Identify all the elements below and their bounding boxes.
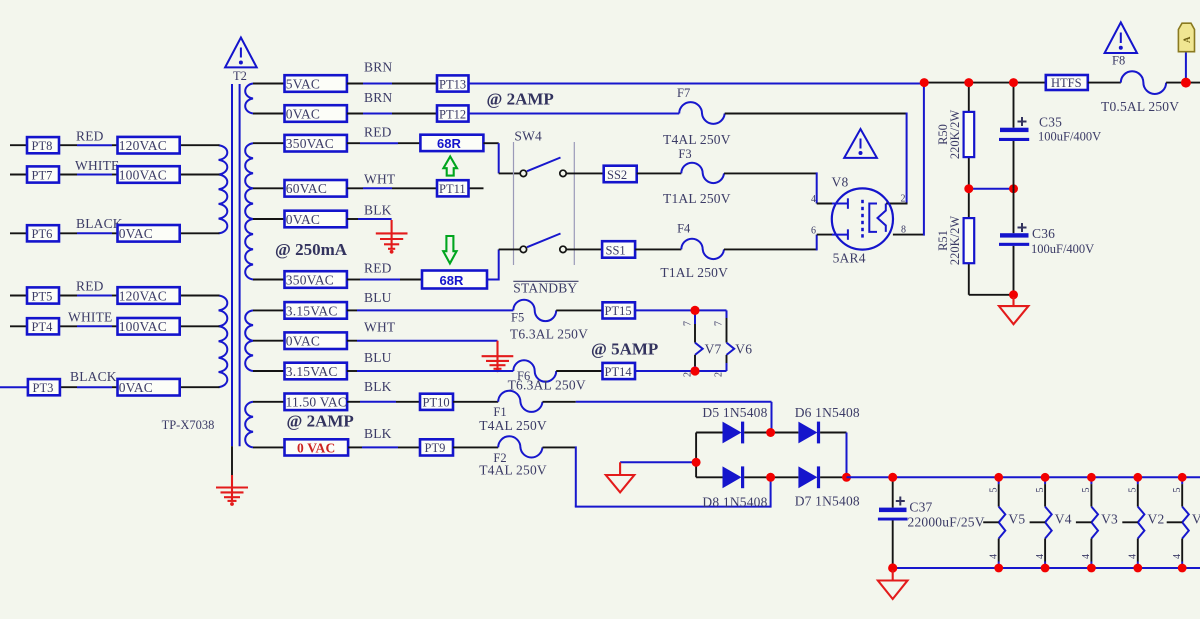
- svg-text:T1AL 250V: T1AL 250V: [660, 265, 728, 280]
- switch SW4 pole 1: [520, 158, 566, 177]
- label @ 250mA: [275, 240, 348, 259]
- wire 11.50VAC to PT10: [347, 401, 420, 403]
- label BRN: [364, 60, 392, 75]
- svg-text:5: 5: [1128, 488, 1139, 493]
- wire heater top rail: [847, 476, 1200, 478]
- resistor 68R top: [420, 135, 483, 151]
- resistor R50: [964, 112, 975, 157]
- junction V5 bottom: [994, 564, 1003, 573]
- junction V7 top: [690, 306, 699, 315]
- wire F8 to edge: [1166, 82, 1200, 84]
- svg-text:V6: V6: [735, 342, 752, 357]
- label BLK: [364, 203, 392, 218]
- svg-text:@ 5AMP: @ 5AMP: [591, 340, 658, 359]
- svg-text:11.50 VAC: 11.50 VAC: [286, 395, 348, 410]
- svg-text:T4AL 250V: T4AL 250V: [479, 418, 547, 433]
- label BRN 2: [364, 90, 392, 105]
- label WHITE: [75, 158, 119, 173]
- svg-text:100VAC: 100VAC: [119, 319, 167, 334]
- ground at transformer: [216, 475, 248, 506]
- svg-text:220K/2W: 220K/2W: [948, 216, 962, 266]
- wire HTFS to F8: [1088, 82, 1121, 84]
- svg-text:4: 4: [1081, 554, 1092, 559]
- svg-text:PT9: PT9: [425, 441, 446, 455]
- svg-text:F1: F1: [493, 405, 506, 419]
- svg-text:68R: 68R: [437, 136, 461, 151]
- junction V3 top: [1087, 473, 1096, 482]
- pin 4 of V8: [811, 194, 816, 205]
- svg-text:2: 2: [901, 194, 906, 205]
- svg-text:WHT: WHT: [364, 172, 396, 187]
- wire PT9 to F2: [453, 446, 498, 448]
- fuse F8: [1101, 54, 1179, 115]
- label BLACK 2: [70, 369, 117, 384]
- svg-text:T0.5AL 250V: T0.5AL 250V: [1101, 99, 1179, 114]
- transformer T2 core: [232, 84, 240, 446]
- wire 0VAC to PT12: [347, 113, 437, 115]
- wire bridge ground tap: [620, 461, 696, 463]
- wire 5VAC to PT13: [347, 83, 437, 85]
- transformer T2 primary winding P2: [219, 296, 228, 388]
- wire PT5 row: [10, 295, 220, 297]
- pin 5 of V1: [1172, 488, 1183, 493]
- wire F2 to bridge: [543, 446, 771, 507]
- terminal PT9: [420, 439, 453, 455]
- node 0VAC primary2: [118, 379, 180, 396]
- svg-text:TP-X7038: TP-X7038: [162, 418, 215, 432]
- label RED 2: [76, 279, 104, 294]
- resistor R51: [964, 218, 975, 263]
- wire PT3 row: [0, 386, 220, 388]
- svg-text:BLU: BLU: [364, 350, 392, 365]
- pin 6 of V8: [811, 226, 816, 237]
- svg-text:C37: C37: [909, 500, 932, 515]
- terminal PT5: [27, 287, 59, 303]
- pin 8 of V8: [901, 225, 906, 236]
- junction mid at 1013: [1009, 184, 1018, 193]
- junction V2 bottom: [1133, 564, 1142, 573]
- svg-text:SS2: SS2: [607, 168, 627, 182]
- node SS1: [602, 241, 635, 258]
- svg-text:V1: V1: [1192, 512, 1200, 527]
- svg-text:0VAC: 0VAC: [119, 380, 153, 395]
- label D6 1N5408: [795, 405, 860, 420]
- transformer T2 secondary winding S1: [245, 84, 253, 114]
- pin 4 of V3: [1081, 554, 1092, 559]
- label D5 1N5408: [702, 405, 767, 420]
- wire 68R to SW4 top: [483, 143, 520, 173]
- junction V7 bottom: [690, 366, 699, 375]
- svg-text:120VAC: 120VAC: [119, 138, 167, 153]
- wire 60VAC to PT11: [347, 187, 484, 189]
- svg-text:PT8: PT8: [32, 139, 53, 153]
- wire PT7 row: [10, 174, 220, 176]
- heater V4: [1030, 477, 1072, 568]
- junction V4 top: [1041, 473, 1050, 482]
- svg-text:T1AL 250V: T1AL 250V: [663, 191, 731, 206]
- junction bridge left: [692, 458, 701, 467]
- junction V1 bottom: [1178, 564, 1187, 573]
- terminal PT13: [437, 75, 469, 91]
- svg-text:T4AL 250V: T4AL 250V: [663, 132, 731, 147]
- junction mid at 968: [964, 184, 973, 193]
- svg-text:@ 2AMP: @ 2AMP: [287, 412, 354, 431]
- wire transformer core to ground: [231, 446, 233, 477]
- svg-text:F3: F3: [678, 147, 691, 161]
- wire 3.15VAC to F6: [347, 370, 513, 372]
- resistor 68R bottom: [422, 271, 487, 289]
- wire top rail PT13 to HTFS: [469, 82, 1046, 85]
- svg-text:100VAC: 100VAC: [119, 167, 167, 182]
- wire 0VAC WHT to ground: [347, 340, 498, 342]
- svg-text:V3: V3: [1101, 512, 1118, 527]
- warning triangle above T2: [225, 38, 257, 68]
- capacitor C37: [878, 477, 908, 568]
- svg-text:@ 250mA: @ 250mA: [275, 240, 348, 259]
- junction rail at 968: [964, 78, 973, 87]
- green arrow down: [443, 236, 456, 263]
- junction V3 bottom: [1087, 564, 1096, 573]
- svg-text:220K/2W: 220K/2W: [948, 110, 962, 160]
- svg-text:D8 1N5408: D8 1N5408: [702, 495, 767, 510]
- tube V8 5AR4: [832, 188, 924, 249]
- svg-text:0VAC: 0VAC: [119, 226, 153, 241]
- wire SS1 to F4: [635, 248, 681, 250]
- label SW4: [514, 129, 542, 144]
- capacitor C35: [999, 117, 1029, 141]
- pin 5 of V3: [1081, 488, 1092, 493]
- svg-text:0VAC: 0VAC: [286, 106, 320, 121]
- node 3.15VAC bottom: [285, 363, 347, 380]
- wire PT15 to heaters V7 V6 top: [635, 310, 727, 318]
- svg-text:PT13: PT13: [439, 77, 466, 91]
- svg-text:120VAC: 120VAC: [119, 288, 167, 303]
- wire D6 output down: [846, 433, 848, 478]
- wire heater bottom rail: [893, 567, 1200, 569]
- transformer T2 secondary winding S4: [245, 402, 253, 448]
- diode D8: [696, 466, 771, 488]
- svg-text:0VAC: 0VAC: [286, 334, 320, 349]
- svg-text:3.15VAC: 3.15VAC: [286, 364, 338, 379]
- svg-text:BRN: BRN: [364, 60, 392, 75]
- ground near bridge: [606, 462, 635, 492]
- wire mid junction R50 C35: [969, 188, 1014, 190]
- svg-text:7: 7: [683, 321, 694, 326]
- label V8: [832, 175, 849, 190]
- connector A: [1178, 23, 1194, 52]
- transformer T2 primary winding P1: [219, 145, 228, 233]
- svg-text:D6 1N5408: D6 1N5408: [795, 405, 860, 420]
- pin 4 of V1: [1172, 554, 1183, 559]
- label RED wire: [364, 125, 392, 140]
- wire 3.15VAC to F5: [347, 309, 513, 311]
- pin 2 of V8: [901, 194, 906, 205]
- node 5VAC: [285, 75, 347, 92]
- breaker HTFS: [1046, 75, 1088, 90]
- svg-text:60VAC: 60VAC: [286, 181, 327, 196]
- svg-text:8: 8: [901, 225, 906, 236]
- svg-text:C35: C35: [1039, 115, 1062, 130]
- pin 4 of V2: [1128, 554, 1139, 559]
- svg-text:V4: V4: [1055, 512, 1072, 527]
- label BLACK: [76, 216, 123, 231]
- wire 0VAC BLK to ground: [347, 218, 392, 220]
- svg-text:100uF/400V: 100uF/400V: [1038, 130, 1101, 144]
- junction top rail at 924: [920, 78, 929, 87]
- heater V2: [1122, 477, 1164, 568]
- svg-text:PT11: PT11: [439, 182, 466, 196]
- wire F4 to V8 pin6: [724, 235, 833, 251]
- label 5AR4: [833, 251, 866, 266]
- svg-text:V8: V8: [832, 175, 849, 190]
- svg-text:PT7: PT7: [32, 168, 53, 182]
- svg-text:STANDBY: STANDBY: [513, 281, 577, 296]
- node 350VAC bottom: [285, 271, 347, 288]
- svg-text:BRN: BRN: [364, 90, 392, 105]
- label STANDBY: [513, 281, 578, 296]
- svg-text:BLU: BLU: [364, 290, 392, 305]
- svg-text:BLK: BLK: [364, 203, 392, 218]
- node 120VAC 2: [118, 287, 180, 304]
- wire SS2 to F3: [637, 172, 682, 174]
- pin 5 of V2: [1128, 488, 1139, 493]
- switch SW4 pole 2: [520, 234, 566, 253]
- junction V4 bottom: [1041, 564, 1050, 573]
- pin 7 of V6: [714, 321, 725, 326]
- svg-text:@ 2AMP: @ 2AMP: [487, 90, 554, 109]
- junction bridge bottom: [766, 473, 775, 482]
- svg-text:4: 4: [1035, 554, 1046, 559]
- junction V2 top: [1133, 473, 1142, 482]
- junction V1 top: [1178, 473, 1187, 482]
- junction C37 bottom: [888, 563, 897, 572]
- label BLK 2: [364, 379, 392, 394]
- pin 2 of V6: [714, 372, 725, 377]
- fuse F7: [663, 86, 731, 147]
- svg-text:350VAC: 350VAC: [286, 272, 334, 287]
- svg-text:0VAC: 0VAC: [286, 212, 320, 227]
- heater V3: [1076, 477, 1118, 568]
- node 0VAC BLK: [285, 211, 347, 228]
- label @ 5AMP: [591, 340, 658, 359]
- node 100VAC: [118, 166, 180, 183]
- transformer T2 secondary winding S3: [245, 310, 253, 371]
- fuse F4: [660, 222, 728, 281]
- svg-text:5: 5: [1172, 488, 1183, 493]
- wire 350VAC to 68R 2: [347, 279, 422, 281]
- svg-text:F4: F4: [677, 222, 691, 236]
- node 11.50 VAC: [285, 394, 348, 411]
- terminal PT15: [603, 302, 636, 318]
- svg-text:BLACK: BLACK: [76, 216, 123, 231]
- wire PT10 to F1: [453, 401, 498, 403]
- terminal PT12: [437, 105, 469, 121]
- terminal PT6: [27, 225, 59, 241]
- pin 4 of V5: [989, 554, 1000, 559]
- junction bottom at 1013: [1009, 290, 1018, 299]
- label RED: [76, 129, 104, 144]
- label R50 220K/2W: [936, 110, 962, 160]
- heater V1: [1167, 477, 1200, 568]
- svg-text:4: 4: [1128, 554, 1139, 559]
- label TP-X7038: [162, 418, 215, 432]
- svg-text:0 VAC: 0 VAC: [297, 440, 335, 455]
- svg-text:PT15: PT15: [605, 304, 632, 318]
- svg-text:SS1: SS1: [606, 243, 626, 257]
- diode D6: [771, 422, 847, 444]
- wire PT12 to F7: [469, 113, 680, 115]
- heater V7: [695, 310, 722, 371]
- svg-text:D5 1N5408: D5 1N5408: [702, 405, 767, 420]
- switch SW4 guide lines: [514, 142, 575, 265]
- svg-text:A: A: [1182, 36, 1192, 43]
- label C36: [1031, 226, 1094, 256]
- label WHITE 2: [68, 310, 112, 325]
- junction bridge top: [766, 428, 775, 437]
- svg-text:4: 4: [989, 554, 1000, 559]
- terminal PT14: [603, 363, 636, 379]
- svg-text:PT6: PT6: [32, 227, 53, 241]
- svg-text:PT12: PT12: [439, 107, 466, 121]
- wire 0VAC to PT9: [348, 446, 420, 448]
- svg-text:100uF/400V: 100uF/400V: [1031, 242, 1094, 256]
- wire R50 column: [969, 83, 1014, 295]
- transformer T2 secondary winding S2: [245, 143, 253, 279]
- fuse F5: [510, 300, 588, 342]
- svg-text:5: 5: [1035, 488, 1046, 493]
- svg-text:5VAC: 5VAC: [286, 76, 320, 91]
- node 0VAC primary1: [118, 225, 180, 242]
- svg-text:WHT: WHT: [364, 320, 396, 335]
- wire PT8 row: [10, 144, 220, 146]
- label WHT: [364, 172, 396, 187]
- ground WHT row: [482, 341, 514, 372]
- svg-text:4: 4: [1172, 554, 1183, 559]
- svg-text:C36: C36: [1032, 226, 1055, 241]
- wire V8 pin8 to top rail: [923, 83, 925, 236]
- diode D7: [771, 466, 847, 488]
- warning triangle near V8: [844, 129, 877, 158]
- svg-text:68R: 68R: [440, 273, 464, 288]
- node 0 VAC red: [285, 439, 349, 455]
- svg-text:T4AL 250V: T4AL 250V: [479, 463, 547, 478]
- svg-text:22000uF/25V: 22000uF/25V: [908, 515, 985, 530]
- svg-text:D7 1N5408: D7 1N5408: [795, 494, 860, 509]
- wire PT6 row: [10, 232, 220, 234]
- svg-text:PT3: PT3: [33, 381, 54, 395]
- svg-text:PT14: PT14: [605, 365, 633, 379]
- label @ 2AMP bottom: [287, 412, 354, 431]
- terminal PT11: [437, 180, 469, 196]
- pin 4 of V4: [1035, 554, 1046, 559]
- svg-text:5: 5: [1081, 488, 1092, 493]
- label BLU 2: [364, 350, 392, 365]
- wire SW4 to SS2: [566, 172, 604, 174]
- svg-text:7: 7: [714, 321, 725, 326]
- terminal PT3: [28, 379, 60, 395]
- svg-text:T6.3AL 250V: T6.3AL 250V: [510, 327, 588, 342]
- ground below C36: [999, 297, 1028, 324]
- svg-text:PT5: PT5: [32, 289, 53, 303]
- wire F3 to V8 pin4: [724, 172, 833, 203]
- ground BLK row: [376, 220, 408, 254]
- junction C37 top: [888, 473, 897, 482]
- terminal PT7: [27, 166, 59, 182]
- label @ 2AMP top: [487, 90, 554, 109]
- svg-text:PT4: PT4: [32, 320, 54, 334]
- svg-text:4: 4: [811, 194, 816, 205]
- node 350VAC top: [285, 135, 347, 152]
- pin 7 of V7: [683, 321, 694, 326]
- svg-text:BLACK: BLACK: [70, 369, 117, 384]
- svg-text:F8: F8: [1112, 54, 1125, 68]
- green arrow up: [443, 157, 457, 176]
- wire 350VAC to 68R: [347, 142, 421, 144]
- wire 68R bottom to SW4 pole2: [487, 249, 520, 280]
- svg-text:WHITE: WHITE: [68, 310, 112, 325]
- svg-text:BLK: BLK: [364, 379, 392, 394]
- wire taps secondary: [253, 84, 285, 448]
- wire PT14 to heaters V7 V6 bottom: [635, 363, 727, 371]
- diode D5: [696, 422, 771, 444]
- heater V6: [727, 318, 753, 363]
- node 60VAC: [285, 180, 347, 197]
- wire bridge left leg: [695, 433, 697, 478]
- fuse F6: [508, 360, 586, 392]
- svg-text:5AR4: 5AR4: [833, 251, 866, 266]
- svg-text:F7: F7: [677, 86, 690, 100]
- svg-text:RED: RED: [76, 129, 104, 144]
- svg-text:350VAC: 350VAC: [286, 136, 334, 151]
- svg-text:RED: RED: [76, 279, 104, 294]
- wire F1 to bridge: [543, 402, 772, 433]
- wire connector A: [1185, 52, 1187, 83]
- heater V5: [983, 477, 1025, 568]
- junction rail at 1013: [1009, 78, 1018, 87]
- wire F5 to PT15: [556, 309, 602, 311]
- svg-text:3.15VAC: 3.15VAC: [286, 303, 338, 318]
- label WHT 2: [364, 320, 396, 335]
- svg-text:2: 2: [714, 372, 725, 377]
- label BLU: [364, 290, 392, 305]
- label RED wire 2: [364, 261, 392, 276]
- warning triangle above F8: [1105, 22, 1137, 53]
- pin 5 of V5: [989, 488, 1000, 493]
- label D7 1N5408: [795, 494, 860, 509]
- svg-text:WHITE: WHITE: [75, 158, 119, 173]
- terminal PT10: [420, 394, 453, 410]
- label D8 1N5408: [702, 495, 767, 510]
- svg-text:5: 5: [989, 488, 1000, 493]
- wire SW4 to SS1: [566, 248, 602, 250]
- ground below C37: [878, 570, 908, 599]
- wire C35 column: [1013, 83, 1015, 295]
- fuse F3: [663, 147, 731, 206]
- svg-text:V5: V5: [1008, 512, 1025, 527]
- junction bridge output: [842, 473, 851, 482]
- svg-text:PT10: PT10: [423, 396, 450, 410]
- svg-text:BLK: BLK: [364, 426, 392, 441]
- label BLK 3: [364, 426, 392, 441]
- junction at connector A: [1181, 78, 1191, 88]
- wire PT4 row: [10, 325, 220, 327]
- node 120VAC: [118, 137, 180, 154]
- wire F7 to V8 pin2: [725, 113, 908, 204]
- label R51 220K/2W: [936, 216, 962, 266]
- svg-text:F5: F5: [511, 311, 524, 325]
- svg-text:V7: V7: [705, 342, 722, 357]
- fuse F2: [479, 436, 547, 477]
